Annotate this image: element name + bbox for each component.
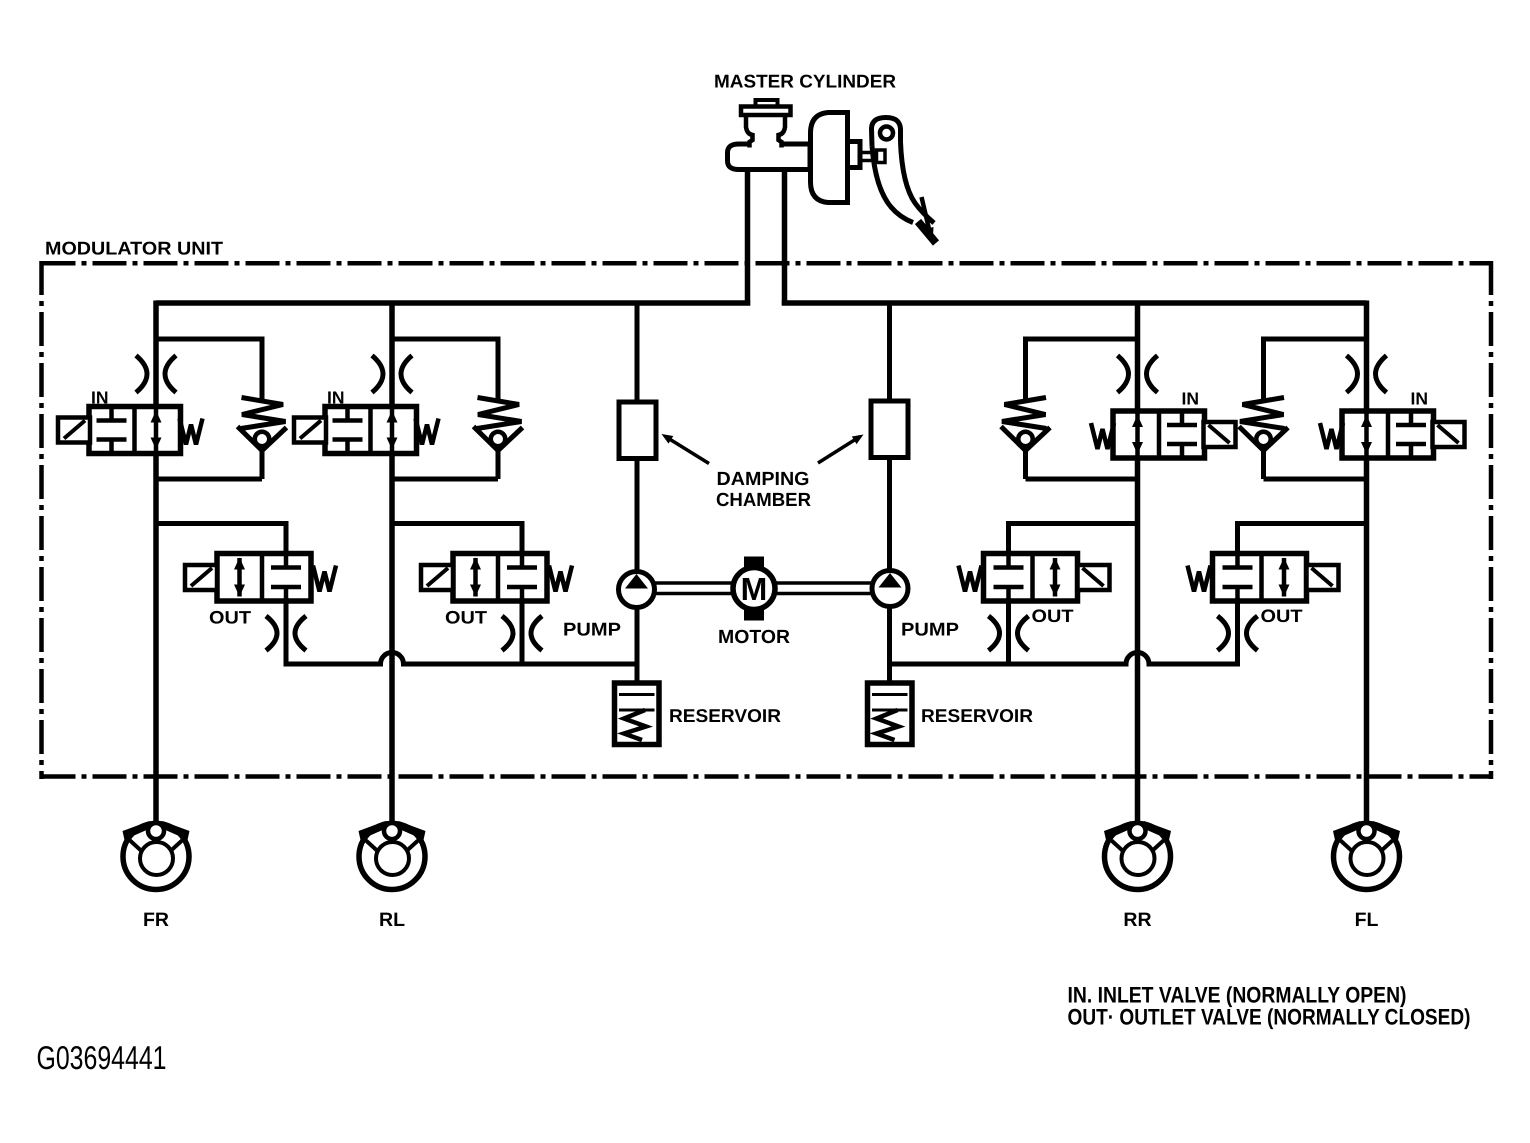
check valve RR seat xyxy=(1001,427,1026,451)
svg-text:PUMP: PUMP xyxy=(563,619,621,640)
damping chamber left xyxy=(619,402,656,459)
wheel FR disc xyxy=(123,824,189,890)
wire: outlet branch bottom RL xyxy=(520,598,525,667)
outlet valve FR solenoid xyxy=(185,565,217,590)
svg-text:OUT: OUT xyxy=(445,608,487,628)
svg-text:IN: IN xyxy=(327,388,345,408)
svg-text:FL: FL xyxy=(1355,909,1379,931)
outlet valve RL closed-port marks xyxy=(520,554,525,568)
motor shaft right xyxy=(775,581,873,585)
svg-text:M: M xyxy=(741,571,768,607)
orifice marks channel FR xyxy=(136,356,147,393)
outlet valve RR solenoid xyxy=(1078,565,1110,590)
svg-text:FR: FR xyxy=(143,909,169,931)
reservoir right xyxy=(868,683,913,745)
inlet valve RL open-port arrows xyxy=(390,407,395,454)
wheel RR disc xyxy=(1105,824,1171,890)
check valve RL spring xyxy=(477,398,522,429)
damping chamber arrow right xyxy=(818,437,860,464)
wire: bypass branch lower RR xyxy=(1023,448,1028,479)
reservoir left xyxy=(615,683,660,745)
motor shaft left xyxy=(654,581,733,585)
wire: bypass loop bottom RR xyxy=(1026,477,1138,482)
master cylinder reservoir lid xyxy=(741,107,791,116)
outlet valve FL open-port arrows xyxy=(1282,558,1287,597)
check valve FL ball xyxy=(1256,432,1271,447)
damping chamber arrow left xyxy=(667,438,709,464)
outlet valve FL closed-port marks xyxy=(1235,554,1240,568)
orifice marks outlet FR xyxy=(266,616,277,651)
svg-text:OUT· OUTLET VALVE (NORMALLY CL: OUT· OUTLET VALVE (NORMALLY CLOSED) xyxy=(1068,1005,1471,1030)
check valve FR ball xyxy=(255,432,270,447)
inlet valve FR open-port arrows xyxy=(154,407,159,454)
outlet valve FL body xyxy=(1213,554,1307,602)
check valve FR spring xyxy=(241,398,286,429)
damping chamber right xyxy=(871,401,908,458)
inlet valve RR closed-port marks xyxy=(1180,411,1185,425)
orifice marks outlet RL xyxy=(502,616,513,651)
wire: bypass loop top FL xyxy=(1264,337,1367,342)
wheel RR hub xyxy=(1122,842,1155,875)
master cylinder body xyxy=(728,144,811,170)
inlet valve FL closed-port marks xyxy=(1409,411,1414,425)
outlet valve RL open-port arrows xyxy=(473,558,478,597)
brake pedal push rod xyxy=(860,151,878,155)
wire: supply bus left circuit xyxy=(156,300,750,306)
wheel RL hub xyxy=(376,842,409,875)
outlet valve FR spring W xyxy=(313,566,336,592)
outlet valve RR closed-port marks xyxy=(1006,554,1011,568)
orifice marks outlet FL xyxy=(1218,616,1229,651)
wire: channel FR main line xyxy=(153,301,159,822)
wheel FL caliper xyxy=(1333,821,1361,845)
wire: outlet branch top FL xyxy=(1238,521,1367,526)
inlet valve RL spring W xyxy=(416,419,439,445)
pipe: master cylinder primary circuit xyxy=(745,167,751,306)
wire: bypass branch upper RL xyxy=(496,337,501,403)
inlet valve FR spring W xyxy=(180,419,203,445)
brake pedal pad xyxy=(918,222,936,244)
wire: outlet branch bottom RR xyxy=(1006,598,1011,667)
check valve RL seat xyxy=(474,427,499,451)
inlet valve FR body xyxy=(89,407,181,454)
outlet valve RR spring W xyxy=(959,566,982,592)
wire: channel FL main line xyxy=(1364,301,1370,822)
inlet valve RL body xyxy=(325,407,417,454)
outlet valve FR closed-port marks xyxy=(284,554,289,568)
inlet valve RR open-port arrows xyxy=(1135,411,1140,458)
inlet valve FL spring W xyxy=(1320,423,1343,449)
check valve FL spring xyxy=(1240,398,1285,429)
svg-text:RR: RR xyxy=(1123,909,1151,931)
outlet valve FL solenoid xyxy=(1307,565,1339,590)
svg-text:IN: IN xyxy=(91,388,109,408)
wheel FR caliper xyxy=(123,821,151,845)
wire: return collector left xyxy=(286,653,639,665)
outlet valve RL body xyxy=(453,554,547,602)
inlet valve RL solenoid xyxy=(294,418,326,443)
wire: damping chamber line left xyxy=(635,303,640,404)
wheel FL disc xyxy=(1334,824,1400,890)
wire: bypass branch upper RR xyxy=(1023,337,1028,403)
wire: bypass loop top RL xyxy=(392,337,498,342)
svg-text:MOTOR: MOTOR xyxy=(718,627,790,648)
outlet valve FR open-port arrows xyxy=(237,558,242,597)
svg-text:MODULATOR UNIT: MODULATOR UNIT xyxy=(45,238,224,259)
svg-text:PUMP: PUMP xyxy=(901,619,959,640)
master cylinder reservoir neck xyxy=(749,141,783,149)
inlet valve FL body xyxy=(1342,411,1434,458)
check valve RR ball xyxy=(1018,432,1033,447)
wire: supply bus right circuit xyxy=(782,300,1367,306)
brake pedal pivot xyxy=(880,127,893,140)
check valve FR seat xyxy=(238,427,263,451)
inlet valve RR solenoid xyxy=(1204,422,1236,447)
wire: bypass branch lower RL xyxy=(496,448,501,479)
check valve RR spring xyxy=(1002,398,1047,429)
wire: bypass branch lower FL xyxy=(1261,448,1266,479)
outlet valve RR body xyxy=(984,554,1078,602)
inlet valve RL closed-port marks xyxy=(345,407,350,421)
pipe: master cylinder secondary circuit xyxy=(782,167,788,306)
svg-text:RESERVOIR: RESERVOIR xyxy=(921,705,1033,726)
wire: return collector right xyxy=(887,653,1240,665)
svg-text:MASTER CYLINDER: MASTER CYLINDER xyxy=(714,71,896,92)
outlet valve RL solenoid xyxy=(421,565,453,590)
wire: outlet branch bottom FL xyxy=(1235,598,1240,667)
pump right xyxy=(872,571,908,607)
wire: damping chamber line right xyxy=(887,303,892,403)
master cylinder booster xyxy=(811,113,848,203)
svg-text:RESERVOIR: RESERVOIR xyxy=(669,705,781,726)
wire: bypass loop bottom RL xyxy=(392,477,498,482)
wire: bypass loop bottom FL xyxy=(1264,477,1367,482)
pump left xyxy=(619,572,655,608)
wire: channel RL main line xyxy=(389,301,395,822)
svg-text:RL: RL xyxy=(379,909,405,931)
wire: outlet branch top RL xyxy=(392,521,522,526)
svg-text:OUT: OUT xyxy=(1032,606,1074,626)
svg-text:DAMPING: DAMPING xyxy=(717,469,810,490)
wire: outlet branch top RR xyxy=(1009,521,1138,526)
orifice marks channel RL xyxy=(372,356,383,393)
inlet valve FL open-port arrows xyxy=(1364,411,1369,458)
outlet valve FR body xyxy=(217,554,311,602)
master cylinder reservoir cap xyxy=(756,100,778,108)
wheel RR caliper xyxy=(1104,821,1132,845)
inlet valve FR closed-port marks xyxy=(109,407,114,421)
wheel RL disc xyxy=(359,824,425,890)
svg-text:IN: IN xyxy=(1182,389,1200,409)
inlet valve RR body xyxy=(1113,411,1205,458)
wire: bypass loop top RR xyxy=(1026,337,1138,342)
brake pedal press arrow xyxy=(922,197,930,229)
motor M1 xyxy=(744,557,764,569)
svg-text:IN: IN xyxy=(1411,389,1429,409)
svg-text:CHAMBER: CHAMBER xyxy=(716,490,811,511)
outlet valve RL spring W xyxy=(549,566,572,592)
wire: bypass branch upper FR xyxy=(260,337,265,403)
check valve RL ball xyxy=(491,432,506,447)
outlet valve RR open-port arrows xyxy=(1053,558,1058,597)
wire: bypass branch upper FL xyxy=(1261,337,1266,403)
wheel FR hub xyxy=(140,842,173,875)
wire: bypass branch lower FR xyxy=(260,448,265,479)
svg-text:OUT: OUT xyxy=(1261,606,1303,626)
orifice marks channel FL xyxy=(1347,356,1358,393)
inlet valve FL solenoid xyxy=(1433,422,1465,447)
wire: bypass loop bottom FR xyxy=(156,477,262,482)
check valve FL seat xyxy=(1239,427,1264,451)
outlet valve FL spring W xyxy=(1188,566,1211,592)
wire: outlet branch top FR xyxy=(156,521,286,526)
orifice marks outlet RR xyxy=(989,616,1000,651)
modulator unit dashed border xyxy=(42,261,1492,266)
wire: bypass loop top FR xyxy=(156,337,262,342)
wheel FL hub xyxy=(1351,842,1384,875)
inlet valve FR solenoid xyxy=(58,418,90,443)
svg-text:OUT: OUT xyxy=(209,608,251,628)
brake pedal arm xyxy=(872,118,901,147)
svg-text:G03694441: G03694441 xyxy=(37,1039,167,1076)
inlet valve RR spring W xyxy=(1091,423,1114,449)
master cylinder output rod housing xyxy=(848,142,861,168)
wire: outlet branch bottom FR xyxy=(284,598,289,667)
wire: channel RR main line xyxy=(1135,301,1141,822)
wheel RL caliper xyxy=(359,821,387,845)
orifice marks channel RR xyxy=(1118,356,1129,393)
